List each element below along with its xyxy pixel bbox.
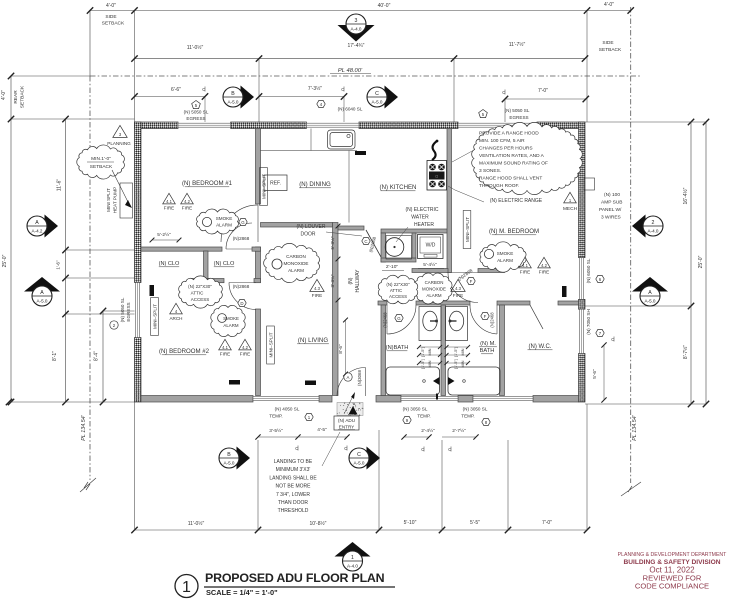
svg-text:[1'-5"]: [1'-5"] [454, 359, 458, 369]
svg-text:EGRESS: EGRESS [126, 302, 131, 321]
svg-text:F: F [470, 279, 473, 284]
svg-text:C: C [611, 337, 614, 342]
svg-text:PLANNING: PLANNING [107, 141, 131, 146]
svg-text:MECH: MECH [563, 206, 578, 212]
svg-text:4.2: 4.2 [541, 263, 547, 268]
svg-text:4.3: 4.3 [455, 286, 461, 291]
svg-text:FIRE: FIRE [240, 352, 250, 357]
svg-text:C: C [295, 446, 298, 451]
svg-text:[1'-5"]: [1'-5"] [421, 359, 425, 369]
svg-text:PL 48.00': PL 48.00' [338, 68, 363, 74]
svg-text:REAR: REAR [13, 90, 19, 104]
svg-text:FIRE: FIRE [164, 206, 174, 211]
svg-text:6'-6": 6'-6" [171, 87, 181, 93]
svg-text:CHANGES PER HOURS: CHANGES PER HOURS [479, 146, 533, 152]
svg-text:TEMP.: TEMP. [417, 414, 430, 419]
svg-text:40'-0": 40'-0" [378, 3, 391, 9]
svg-text:NOT BE MORE: NOT BE MORE [276, 484, 312, 490]
svg-text:1'-6": 1'-6" [56, 260, 61, 270]
svg-text:ALARM: ALARM [426, 293, 441, 298]
svg-text:ENTRY: ENTRY [339, 425, 355, 430]
svg-text:C: C [202, 87, 205, 92]
svg-text:FIRE: FIRE [453, 293, 463, 298]
svg-text:G: G [241, 220, 245, 225]
svg-text:5'-2½": 5'-2½" [157, 231, 171, 238]
svg-text:(N) KITCHEN: (N) KITCHEN [380, 184, 417, 191]
svg-text:THRESHOLD: THRESHOLD [278, 508, 309, 514]
svg-text:SIDE: SIDE [602, 40, 613, 46]
svg-text:MINI–SPLIT: MINI–SPLIT [269, 332, 274, 357]
svg-text:25'-0": 25'-0" [698, 255, 704, 268]
svg-text:EGRESS: EGRESS [509, 115, 528, 120]
svg-text:4.2: 4.2 [184, 199, 190, 204]
svg-text:A: A [40, 290, 44, 296]
svg-text:HEAT PUMP: HEAT PUMP [113, 187, 118, 213]
svg-text:3 WIRES: 3 WIRES [601, 215, 621, 221]
svg-text:A-4.0: A-4.0 [351, 27, 362, 32]
svg-text:A-5.0: A-5.0 [645, 299, 656, 304]
svg-text:(N)BATH: (N)BATH [386, 345, 409, 351]
svg-text:C: C [502, 90, 505, 95]
svg-text:B: B [227, 452, 231, 458]
svg-text:A-4.2: A-4.2 [32, 229, 43, 234]
svg-text:A-5.0: A-5.0 [224, 461, 235, 466]
svg-text:C: C [341, 87, 344, 92]
svg-text:(N) ADU: (N) ADU [338, 418, 355, 423]
svg-text:A: A [347, 375, 350, 380]
svg-text:(N) BEDROOM #2: (N) BEDROOM #2 [159, 348, 210, 355]
svg-text:TEMP.: TEMP. [269, 414, 282, 419]
svg-text:LANDING TO BE: LANDING TO BE [274, 459, 313, 465]
svg-text:MIN.1'-0": MIN.1'-0" [91, 156, 111, 162]
svg-text:(N): (N) [348, 277, 354, 284]
svg-text:A-5.0: A-5.0 [37, 299, 48, 304]
svg-text:A: A [648, 290, 652, 296]
svg-text:SCALE = 1/4" = 1'-0": SCALE = 1/4" = 1'-0" [206, 588, 278, 597]
svg-text:8'-7½": 8'-7½" [682, 345, 689, 359]
svg-text:F: F [484, 314, 487, 319]
svg-text:VENTILATION RATES, AND A: VENTILATION RATES, AND A [479, 153, 545, 159]
svg-text:ARCH: ARCH [169, 316, 182, 321]
svg-text:10'-8½": 10'-8½" [310, 520, 327, 527]
svg-text:4.1: 4.1 [222, 345, 228, 350]
svg-text:(N) CLO: (N) CLO [159, 261, 180, 267]
svg-text:ALARM: ALARM [216, 223, 232, 228]
svg-text:17'-4¾": 17'-4¾" [348, 43, 365, 49]
svg-text:(N) BEDROOM #1: (N) BEDROOM #1 [182, 180, 233, 187]
svg-text:DOOR: DOOR [301, 232, 316, 238]
svg-text:(N) W.C.: (N) W.C. [529, 344, 552, 350]
svg-text:(N) 3050 SL: (N) 3050 SL [463, 407, 488, 412]
svg-text:8'-4": 8'-4" [94, 351, 100, 361]
svg-text:G: G [397, 316, 401, 321]
svg-text:(N) 5050 SL: (N) 5050 SL [505, 108, 530, 113]
svg-text:4'-0": 4'-0" [604, 2, 614, 8]
svg-text:A: A [35, 220, 39, 226]
svg-text:4.1: 4.1 [522, 263, 528, 268]
svg-text:2'-10": 2'-10" [386, 264, 399, 270]
svg-text:(N)2468: (N)2468 [490, 312, 495, 328]
svg-text:3: 3 [355, 18, 358, 24]
svg-text:FIRE: FIRE [539, 270, 549, 275]
svg-text:EGRESS: EGRESS [186, 116, 205, 121]
svg-text:MONOXIDE: MONOXIDE [422, 287, 446, 292]
svg-text:ALARM: ALARM [497, 258, 513, 263]
svg-text:SETBACK: SETBACK [90, 164, 113, 170]
svg-text:4'-5": 4'-5" [317, 427, 327, 433]
svg-text:16'-4½": 16'-4½" [682, 187, 689, 204]
svg-text:PROVIDE A RANGE HOOD: PROVIDE A RANGE HOOD [479, 131, 539, 137]
svg-text:MIN: MIN [461, 348, 465, 355]
svg-text:A-5.0: A-5.0 [372, 100, 383, 105]
svg-text:SETBACK: SETBACK [599, 47, 622, 53]
svg-text:C: C [421, 447, 424, 452]
svg-text:(N) 22"X30": (N) 22"X30" [188, 284, 212, 289]
svg-text:ALARM: ALARM [288, 268, 304, 273]
svg-text:FIRE: FIRE [312, 293, 322, 298]
svg-text:ATTIC: ATTIC [191, 291, 204, 296]
svg-text:(N)2468: (N)2468 [383, 312, 388, 328]
svg-text:MAXIMUM SOUND RATING OF: MAXIMUM SOUND RATING OF [479, 161, 548, 167]
svg-text:3'-5½": 3'-5½" [269, 427, 283, 434]
svg-text:4'-0": 4'-0" [106, 3, 116, 9]
svg-text:11'-6": 11'-6" [57, 179, 63, 192]
svg-text:ACCESS: ACCESS [191, 297, 210, 302]
svg-text:SETBACK: SETBACK [20, 85, 26, 108]
svg-text:(N) M.: (N) M. [480, 341, 496, 347]
svg-text:C: C [448, 447, 451, 452]
svg-text:11'-0½": 11'-0½" [188, 520, 205, 527]
svg-text:FIRE: FIRE [182, 206, 192, 211]
svg-text:MINI SPLIT: MINI SPLIT [106, 188, 111, 212]
svg-text:C: C [344, 446, 347, 451]
svg-text:(N) 7050 SH: (N) 7050 SH [586, 309, 591, 335]
svg-text:5'-4½": 5'-4½" [423, 261, 437, 268]
svg-text:(N) ELECTRIC RANGE: (N) ELECTRIC RANGE [490, 198, 543, 204]
svg-text:RANGE HOOD SHALL VENT: RANGE HOOD SHALL VENT [479, 176, 542, 182]
svg-text:(N) M. BEDROOM: (N) M. BEDROOM [489, 228, 539, 235]
svg-text:ALARM: ALARM [223, 323, 238, 328]
svg-text:2'-7½": 2'-7½" [452, 427, 466, 434]
svg-text:MONOXIDE: MONOXIDE [283, 261, 308, 266]
svg-text:7 3/4", LOWER: 7 3/4", LOWER [276, 492, 310, 498]
svg-text:SMOKE: SMOKE [497, 251, 514, 256]
svg-text:(N) 5050 SL: (N) 5050 SL [184, 110, 209, 115]
svg-text:[1'-5"]: [1'-5"] [454, 347, 458, 357]
svg-text:MINI–SPLIT: MINI–SPLIT [153, 304, 158, 329]
svg-text:A-5.0: A-5.0 [228, 100, 239, 105]
svg-text:(N) DINING: (N) DINING [299, 181, 331, 188]
svg-text:SIDE: SIDE [105, 14, 116, 20]
svg-text:TEMP.: TEMP. [461, 414, 474, 419]
svg-text:PL 134.54': PL 134.54' [632, 414, 638, 440]
svg-text:4'-0": 4'-0" [1, 90, 7, 100]
svg-text:25'-0": 25'-0" [2, 254, 8, 267]
svg-text:(N) 3050 SL: (N) 3050 SL [403, 407, 428, 412]
svg-text:2: 2 [652, 220, 655, 226]
svg-text:8'-1": 8'-1" [52, 351, 58, 361]
svg-text:3 SONES.: 3 SONES. [479, 168, 501, 174]
svg-text:5'-10": 5'-10" [404, 520, 417, 526]
svg-text:[1'-5"]: [1'-5"] [421, 347, 425, 357]
svg-text:5'-5": 5'-5" [470, 520, 480, 526]
svg-text:FIRE: FIRE [520, 270, 530, 275]
svg-text:MINI–SPLIT: MINI–SPLIT [465, 217, 470, 242]
svg-text:11'-7½": 11'-7½" [509, 41, 526, 48]
svg-text:MINIMUM 3'X3': MINIMUM 3'X3' [276, 467, 311, 473]
svg-text:7'-0": 7'-0" [542, 520, 552, 526]
svg-text:(N)2868: (N)2868 [233, 236, 250, 241]
svg-text:CODE COMPLIANCE: CODE COMPLIANCE [635, 582, 709, 591]
svg-text:AMP SUB: AMP SUB [601, 200, 623, 206]
svg-text:MIN: MIN [428, 348, 432, 355]
svg-text:2'-4½": 2'-4½" [421, 427, 435, 434]
svg-text:C: C [375, 91, 379, 97]
svg-text:A-4.0: A-4.0 [648, 229, 659, 234]
svg-text:SMOKE: SMOKE [223, 316, 239, 321]
svg-text:(N)3068: (N)3068 [357, 370, 362, 386]
svg-text:CARBON: CARBON [425, 280, 444, 285]
svg-text:1: 1 [182, 579, 191, 596]
svg-text:W/D: W/D [426, 243, 436, 249]
svg-text:THROUGH ROOF.: THROUGH ROOF. [479, 183, 519, 189]
svg-text:(N) CLO: (N) CLO [214, 261, 235, 267]
svg-text:PANEL W/: PANEL W/ [599, 207, 622, 213]
svg-text:(N) 6050 SL: (N) 6050 SL [586, 258, 591, 283]
svg-text:(N) 6040 SL: (N) 6040 SL [338, 107, 363, 112]
svg-text:(N) 22"X30": (N) 22"X30" [386, 282, 410, 287]
svg-text:C: C [357, 452, 361, 458]
svg-text:(N) 100: (N) 100 [604, 192, 620, 198]
svg-text:7'-0": 7'-0" [538, 88, 548, 94]
svg-text:D: D [240, 301, 243, 306]
svg-text:(N)2868: (N)2868 [233, 284, 250, 289]
svg-text:PROPOSED ADU FLOOR PLAN: PROPOSED ADU FLOOR PLAN [205, 571, 385, 585]
svg-text:(N) 4050 SL: (N) 4050 SL [275, 407, 300, 412]
svg-text:3'-3¾": 3'-3¾" [330, 274, 335, 287]
svg-text:(N) LIVING: (N) LIVING [298, 337, 328, 344]
svg-text:1: 1 [351, 555, 354, 561]
svg-text:A-5.0: A-5.0 [354, 461, 365, 466]
svg-text:WATER: WATER [411, 215, 429, 221]
svg-text:5'-3¼": 5'-3¼" [330, 236, 335, 249]
svg-text:B: B [231, 91, 235, 97]
svg-text:4.3: 4.3 [314, 286, 320, 291]
svg-text:LANDING SHALL BE: LANDING SHALL BE [269, 475, 317, 481]
svg-text:7'-3½": 7'-3½" [308, 85, 322, 92]
svg-text:BATH: BATH [480, 348, 495, 354]
svg-text:4.1: 4.1 [166, 199, 172, 204]
svg-text:CARBON: CARBON [286, 254, 306, 259]
svg-text:SETBACK: SETBACK [102, 21, 125, 27]
svg-text:FIRE: FIRE [220, 352, 230, 357]
svg-text:MIN: MIN [428, 360, 432, 367]
svg-text:SMOKE: SMOKE [216, 216, 233, 221]
svg-text:REF.: REF. [270, 181, 281, 187]
svg-text:C: C [364, 239, 367, 244]
svg-text:(N) 5050 SL: (N) 5050 SL [120, 297, 125, 322]
svg-text:THAN DOOR: THAN DOOR [278, 500, 308, 506]
svg-text:8'-6": 8'-6" [338, 344, 344, 354]
svg-text:ATTIC: ATTIC [390, 288, 402, 293]
svg-text:HEATER: HEATER [414, 222, 434, 228]
svg-text:MIN. 100 CFM, 5 AIR: MIN. 100 CFM, 5 AIR [479, 138, 525, 144]
svg-text:HALLWAY: HALLWAY [355, 269, 361, 293]
svg-text:11'-0½": 11'-0½" [187, 44, 204, 51]
svg-text:PLANNING & DEVELOPMENT DEPARTM: PLANNING & DEVELOPMENT DEPARTMENT [618, 552, 728, 558]
svg-text:(N) ELECTRIC: (N) ELECTRIC [405, 207, 438, 213]
svg-text:PL 134.54': PL 134.54' [81, 414, 87, 440]
svg-text:MIN: MIN [461, 360, 465, 367]
svg-text:5'-6": 5'-6" [592, 369, 598, 379]
svg-text:MINI–SPLIT: MINI–SPLIT [262, 174, 267, 199]
svg-text:(N) LOUVER: (N) LOUVER [297, 224, 326, 230]
svg-text:4.2: 4.2 [242, 345, 248, 350]
svg-text:A-4.0: A-4.0 [347, 564, 358, 569]
svg-text:ACCESS: ACCESS [389, 294, 407, 299]
